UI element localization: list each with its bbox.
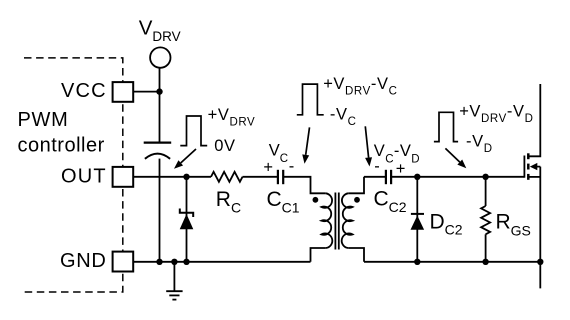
- channel segment top: [527, 153, 530, 159]
- gate bar: [523, 156, 525, 178]
- svg-text:VCC: VCC: [61, 80, 107, 102]
- waveform +V_DRV-V_C / -V_C: [297, 84, 324, 115]
- node bus-zener: [183, 259, 189, 265]
- diode D_C2: [411, 177, 425, 262]
- transformer secondary winding: [342, 193, 353, 248]
- transformer primary bottom lead: [311, 248, 326, 262]
- ground symbol: [166, 262, 182, 300]
- wire OUT to R_C: [133, 176, 211, 178]
- node bus-ground: [171, 259, 177, 265]
- channel segment bottom: [527, 174, 530, 180]
- svg-text:RC: RC: [216, 188, 241, 215]
- arrow to secondary wire: [365, 126, 372, 166]
- supply terminal V_DRV: [150, 47, 170, 67]
- pad GND: [113, 252, 134, 272]
- waveform +V_DRV-V_D / -V_D: [434, 112, 458, 141]
- wire R_C to C_C1: [243, 176, 278, 178]
- svg-text:controller: controller: [18, 135, 105, 157]
- svg-text:-: -: [289, 158, 295, 176]
- arrow to primary wire: [302, 127, 309, 163]
- wire zener branch: [186, 177, 188, 262]
- capacitor bypass (VDRV to GND): [144, 142, 172, 144]
- transformer polarity dot primary: [313, 197, 319, 203]
- svg-text:OUT: OUT: [61, 166, 107, 188]
- arrow to gate wire: [445, 148, 466, 168]
- svg-text:RGS: RGS: [496, 211, 531, 239]
- transformer primary winding: [321, 193, 332, 248]
- node R_GS top: [482, 174, 488, 180]
- node VDRV junction: [156, 88, 162, 94]
- svg-text:+VDRV-VD: +VDRV-VD: [459, 103, 533, 126]
- node bus-cap: [156, 259, 162, 265]
- node OUT junction: [183, 174, 189, 180]
- svg-text:CC2: CC2: [374, 188, 407, 215]
- body arrow: [536, 166, 540, 168]
- svg-text:CC1: CC1: [267, 188, 300, 215]
- svg-text:-: -: [374, 158, 380, 176]
- drain lead: [528, 84, 540, 156]
- svg-text:VDRV: VDRV: [139, 17, 181, 45]
- svg-text:-VC: -VC: [330, 105, 357, 128]
- source lead: [528, 176, 540, 178]
- MOSFET Q1: [524, 84, 540, 288]
- wire V_DRV circle down: [159, 68, 161, 143]
- svg-text:GND: GND: [60, 250, 107, 272]
- svg-text:-VD: -VD: [466, 132, 493, 155]
- resistor R_GS: [481, 177, 490, 262]
- svg-text:+: +: [396, 160, 406, 178]
- transformer polarity dot secondary: [354, 197, 360, 203]
- svg-text:0V: 0V: [214, 137, 235, 155]
- wire VCC pad to node: [133, 91, 159, 93]
- node D_C2 top: [414, 174, 420, 180]
- node source: [537, 259, 543, 265]
- node D_C2 bottom: [414, 259, 420, 265]
- waveform +V_DRV/0V: [180, 116, 207, 146]
- PWM controller dashed box: [24, 58, 123, 292]
- zener diode (OUT clamp): [180, 209, 194, 230]
- svg-text:DC2: DC2: [430, 211, 463, 238]
- wire C_C2 to gate: [391, 176, 524, 178]
- svg-text:+: +: [263, 158, 273, 176]
- transformer secondary top lead: [348, 177, 364, 194]
- wire bypass cap to ground bus: [159, 159, 161, 262]
- wire C_C1 to transformer primary: [283, 177, 326, 194]
- ground bus right: [364, 261, 540, 263]
- resistor R_C: [211, 172, 243, 182]
- ground bus left: [133, 261, 310, 263]
- capacitor C_C1: [277, 170, 279, 184]
- svg-text:PWM: PWM: [18, 109, 69, 131]
- channel segment middle: [527, 164, 530, 170]
- transformer core: [334, 193, 336, 250]
- node R_GS bottom: [482, 259, 488, 265]
- pad VCC: [113, 82, 134, 102]
- pad OUT: [113, 167, 134, 187]
- capacitor C_C2: [385, 170, 387, 184]
- transformer secondary bottom lead: [348, 248, 364, 262]
- arrow to OUT wire: [174, 149, 196, 169]
- wire secondary to C_C2: [364, 176, 386, 178]
- svg-text:+VDRV: +VDRV: [208, 106, 256, 129]
- svg-text:+VDRV-VC: +VDRV-VC: [323, 75, 397, 98]
